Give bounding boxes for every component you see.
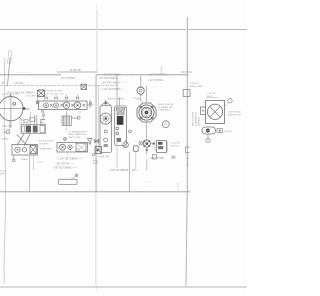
clamp bracket CB1 [41, 120, 45, 126]
lubricator LB1 element [76, 143, 86, 151]
manifold M1 [39, 101, 88, 110]
svg-text:VLV N.C.: VLV N.C. [171, 145, 180, 147]
svg-text:1/2″ OD TUBING: 1/2″ OD TUBING [103, 75, 122, 77]
wire tank to manifold [37, 97, 39, 104]
svg-text:RPM MOTOR: RPM MOTOR [228, 114, 241, 116]
wire bottom crease [95, 192, 97, 287]
wire bottom band line [0, 191, 190, 193]
svg-text:FLEX CONN: FLEX CONN [190, 86, 202, 88]
svg-text:- 3/8″ OD TBG -----: - 3/8″ OD TBG ----- [55, 163, 75, 165]
wire right header tick [181, 71, 192, 73]
svg-text:--1/2″ OD--: --1/2″ OD-- [13, 82, 25, 85]
svg-text:- 3/4″ OD TBG - -: - 3/4″ OD TBG - - [60, 78, 78, 80]
solenoid valve SV1 [155, 141, 168, 153]
svg-text:1/2″ OD TUBING: 1/2″ OD TUBING [148, 75, 167, 77]
regulator finned FR1 [62, 113, 77, 126]
flag marker FL1 [8, 51, 12, 64]
wire vertical crease right [185, 20, 187, 287]
svg-text:- 1-1/2″ OD TUBING - - -: - 1-1/2″ OD TUBING - - - [100, 89, 125, 91]
belt drive BD1 [17, 134, 30, 146]
svg-text:FAN & MOTOR: FAN & MOTOR [191, 111, 194, 126]
nameplate pointer [75, 174, 78, 177]
svg-text:V-BELT: V-BELT [2, 132, 10, 134]
filter unit FU2 [115, 106, 127, 146]
pump head PH1 [143, 140, 150, 147]
wire riser x141 [140, 75, 142, 87]
filter unit FU2 bowl [117, 116, 124, 125]
fitting small FT2 [146, 147, 156, 170]
svg-text:CONN BRKT: CONN BRKT [158, 110, 171, 112]
wire pump drains [13, 155, 15, 159]
fitting manifold outlet [87, 100, 93, 108]
wire riser x146.5 [146, 86, 148, 103]
svg-text:DRN: DRN [0, 173, 5, 175]
wire vertical main riser [186, 17, 188, 286]
gauge small right [228, 99, 232, 103]
regulator valve RV1 [137, 103, 156, 122]
fitting arrows FA1 [151, 142, 155, 144]
wire branch header line [57, 71, 97, 73]
svg-text:AIR HDR 1/2 PIPE: AIR HDR 1/2 PIPE [44, 90, 63, 93]
gauge tank T1 nipple [23, 107, 26, 110]
svg-text:VENT CONN: VENT CONN [68, 137, 81, 139]
drain cap DC1 [12, 159, 15, 162]
wire mid risers [116, 140, 118, 168]
trap TR1 [95, 147, 102, 154]
svg-text:- - - - - - - - - -: - - - - - - - - - - [16, 72, 29, 74]
svg-text:- - - - -: - - - - - [143, 184, 149, 186]
svg-text:1-1/2 SOL: 1-1/2 SOL [171, 143, 181, 145]
valve V2 [95, 140, 99, 143]
valve check CV1 [129, 130, 143, 145]
svg-text:- 3/4″ OD TUBING - - - -: - 3/4″ OD TUBING - - - - [98, 78, 123, 80]
svg-text:-- 1-1/4″ OD TUBING ------: -- 1-1/4″ OD TUBING ------ [56, 158, 83, 160]
gauge PI2 [6, 130, 10, 134]
filter unit FU1 [100, 97, 120, 153]
node riser stub N1 [7, 57, 10, 86]
wire manifold drops [43, 110, 45, 120]
wire top fold line [0, 29, 247, 31]
valve inline VL1 [36, 101, 39, 104]
wire pump outlet riser [29, 155, 31, 192]
wire left feed riser [95, 75, 97, 192]
bracket right BR1 [186, 147, 190, 152]
lubricator LB1 [57, 138, 88, 152]
svg-text:REG 1/2 SET AT: REG 1/2 SET AT [158, 103, 174, 106]
svg-text:VLV W - VLV - W: VLV W - VLV - W [2, 94, 18, 96]
svg-text:AIR FILTER SET: AIR FILTER SET [108, 98, 125, 101]
svg-text:- 3/4″ OD TUBING - - - - - -: - 3/4″ OD TUBING - - - - - - [101, 82, 128, 84]
svg-text:1750 RPM: 1750 RPM [39, 143, 49, 145]
drain cap DC2 [206, 139, 210, 143]
wire compressor inlet [30, 112, 32, 124]
svg-text:1/4 NPT: 1/4 NPT [224, 131, 232, 133]
label riser bracket [186, 158, 189, 165]
svg-text:GUARD: GUARD [1, 138, 9, 141]
drip pocket DP1 [171, 156, 176, 159]
svg-text:3/4 CONN: 3/4 CONN [26, 96, 36, 98]
svg-text:- - - -: - - - - [130, 72, 135, 74]
svg-text:MOTOR 1/2 HP: MOTOR 1/2 HP [39, 141, 54, 143]
svg-text:PUMP GPM: PUMP GPM [40, 149, 52, 151]
valve V3 [123, 141, 129, 148]
svg-text:- - - - - -: - - - - - - [144, 181, 152, 183]
svg-text:--- 3/8″ OD TUBING --- 3/8 -: --- 3/8″ OD TUBING --- 3/8 - - - [108, 170, 140, 172]
sight glass SG1 [77, 116, 80, 119]
valve inlet VX1 [38, 90, 45, 96]
wire regulator outlet [146, 123, 148, 141]
fitting circle [42, 110, 44, 112]
gauge FI1 [162, 121, 169, 128]
svg-text:OIL RESERVOIR W: OIL RESERVOIR W [68, 131, 87, 133]
svg-text:3-1/4 OD: 3-1/4 OD [190, 83, 199, 85]
wire page bottom line [0, 286, 247, 288]
junction box riser JB2 [183, 90, 190, 97]
svg-text:- 3/8″ OD TBG -: - 3/8″ OD TBG - [149, 158, 165, 160]
wire vertical crease left [96, 5, 98, 292]
svg-text:VLV VLV VLV VLV: VLV VLV VLV VLV [46, 94, 64, 96]
valve box B2 [81, 84, 87, 89]
pump P1 [12, 145, 38, 156]
svg-text:PI: PI [2, 81, 5, 85]
svg-text:FI: FI [164, 123, 167, 127]
filter unit FU1 drain [104, 144, 108, 147]
wire page left edge [4, 58, 6, 283]
svg-text:3/4 OD: 3/4 OD [0, 171, 7, 173]
svg-text:NO 2: NO 2 [19, 123, 25, 125]
svg-text:1/20 HP 1550: 1/20 HP 1550 [228, 112, 242, 114]
svg-text:60 PSI AIR SUP: 60 PSI AIR SUP [158, 106, 174, 109]
svg-text:SIGHT GLASS FILL: SIGHT GLASS FILL [68, 133, 87, 136]
wire stub x161 [160, 66, 162, 75]
valve bank VB1 [45, 95, 79, 99]
svg-text:PLENUM: PLENUM [199, 117, 201, 126]
valve outlet OV1 [202, 127, 216, 134]
svg-text:W 3/8″ OD: W 3/8″ OD [70, 70, 81, 72]
svg-text:- - -: - - - [165, 72, 169, 74]
junction flange JB1 [137, 87, 144, 94]
valve outlet OV1 fitting [217, 129, 223, 133]
blower BL1 [206, 101, 225, 124]
svg-text:-- 3/8″ OD TUBING ------: -- 3/8″ OD TUBING ------ [52, 168, 77, 170]
funnel FN1 [88, 139, 93, 145]
svg-text:- 1/2″ OD TBG -: - 1/2″ OD TBG - [148, 80, 164, 82]
wire dashed secondary header [0, 85, 117, 87]
gauge square GS1 [134, 146, 139, 152]
nameplate NP1 [59, 179, 78, 184]
svg-text:- - - - - -: - - - - - - [95, 177, 103, 179]
svg-text:- 1-1/4″ OD -: - 1-1/4″ OD - [97, 157, 110, 159]
wire riser x117 [116, 75, 118, 106]
svg-text:SCALE PT: SCALE PT [2, 125, 13, 128]
wire main header line [0, 74, 61, 76]
pump P1 motor [30, 146, 36, 154]
compressor motor CM1 [21, 115, 46, 134]
svg-text:ASSEMBLY IN: ASSEMBLY IN [194, 112, 197, 126]
svg-text:DRAIN: DRAIN [21, 158, 28, 161]
svg-text:MS: MS [26, 108, 30, 111]
label blower vertical note [191, 111, 200, 126]
gauge tank T1 [0, 93, 26, 128]
svg-text:- 1-1/4 - -: - 1-1/4 - - [36, 162, 45, 164]
blower BL1 inlet box [201, 107, 206, 115]
wire outlet drop [207, 134, 209, 139]
svg-text:1-1/2 SQ: 1-1/2 SQ [207, 93, 216, 95]
